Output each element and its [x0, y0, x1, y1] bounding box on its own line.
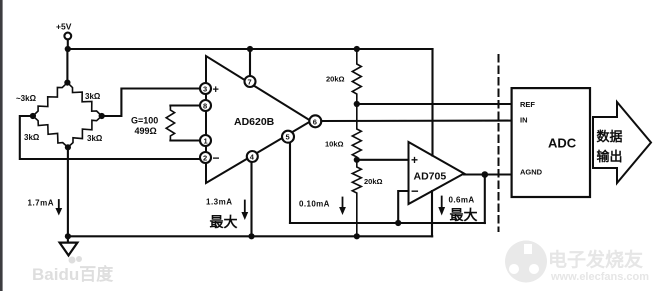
dashed isolation line: [498, 55, 500, 231]
pin 4: [247, 151, 258, 239]
current label 0.10mA: [299, 198, 346, 216]
wire ground rail: [68, 235, 432, 237]
wire bridge bottom to ground: [67, 147, 69, 242]
wire bridge left to pin2 rail: [20, 116, 200, 159]
svg-text:IN: IN: [520, 116, 528, 125]
node feedback tap: [395, 220, 401, 226]
svg-text:AD620B: AD620B: [234, 116, 275, 128]
node ground rail left junction: [65, 233, 71, 239]
svg-text:3kΩ: 3kΩ: [24, 133, 40, 142]
ground: [60, 243, 78, 256]
svg-text:1.7mA: 1.7mA: [28, 199, 55, 208]
watermark baidu: [32, 256, 114, 284]
svg-text:G=100: G=100: [131, 116, 158, 126]
svg-text:电子发烧友: 电子发烧友: [548, 248, 643, 271]
svg-text:10kΩ: 10kΩ: [325, 140, 344, 149]
svg-text:AD705: AD705: [414, 171, 447, 183]
svg-text:0.10mA: 0.10mA: [299, 200, 330, 209]
resistor bridge 3k bottom-right: [68, 116, 102, 147]
wire feedback horizontal to pin5: [290, 222, 485, 224]
resistor 20k bottom: [352, 160, 382, 240]
wire AD705 V- to ground rail: [431, 191, 433, 236]
svg-text:AGND: AGND: [520, 168, 543, 177]
+5V terminal: [56, 22, 72, 40]
op-amp U1 AD620B: [206, 56, 311, 183]
pin 7: [245, 46, 256, 87]
current label 0.6mA MAX: [438, 196, 477, 224]
wire +5V to top rail: [67, 39, 69, 49]
svg-text:20kΩ: 20kΩ: [326, 75, 345, 84]
svg-text:8: 8: [203, 102, 207, 111]
svg-text:输出: 输出: [597, 149, 623, 164]
svg-text:数据: 数据: [597, 129, 623, 144]
svg-text:5: 5: [286, 133, 290, 142]
svg-text:最大: 最大: [450, 207, 478, 223]
svg-text:+: +: [213, 84, 219, 96]
svg-text:Baidu百度: Baidu百度: [32, 264, 114, 284]
resistor bridge 3k bottom-left: [33, 116, 68, 147]
pin 5: [282, 131, 294, 223]
wire pin6 to ADC IN: [321, 120, 513, 123]
svg-text:+: +: [411, 153, 418, 167]
svg-text:−: −: [213, 151, 220, 165]
svg-text:ADC: ADC: [548, 136, 577, 151]
node top rail +5V junction: [65, 46, 71, 52]
watermark elecfans: [505, 241, 649, 284]
node bridge top: [64, 80, 70, 86]
wire AD705 output to ADC AGND: [464, 173, 513, 175]
op-amp U2 AD705: [409, 142, 465, 204]
wire bridge right to pin3: [102, 89, 200, 117]
current label 1.3mA MAX: [206, 198, 248, 231]
pin 8: [200, 100, 211, 111]
border left bar: [0, 0, 3, 291]
resistor bridge ~3k top-left: [33, 83, 68, 116]
svg-text:−: −: [411, 184, 419, 199]
resistor 20k top: [326, 46, 361, 104]
pin 1: [200, 135, 211, 146]
svg-text:www.elecfans.com: www.elecfans.com: [550, 271, 649, 283]
ADC U3: [512, 88, 590, 197]
node bridge left: [30, 113, 36, 119]
wire top rail to bridge top: [66, 49, 68, 83]
svg-text:+5V: +5V: [56, 22, 72, 32]
node AD705 output: [482, 171, 489, 178]
wire top rail: [68, 48, 433, 50]
resistor bridge 3k top-right: [67, 83, 101, 116]
node REF tap: [354, 101, 360, 107]
wire tap to AD705 + input: [357, 159, 409, 161]
svg-text:REF: REF: [520, 100, 535, 109]
svg-text:20kΩ: 20kΩ: [364, 177, 383, 186]
data output arrow: [593, 102, 651, 183]
pin 2: [200, 151, 220, 165]
resistor RG 499 gain: [131, 106, 200, 141]
svg-text:最大: 最大: [210, 214, 238, 230]
node bridge right: [99, 113, 105, 119]
svg-text:1.3mA: 1.3mA: [206, 198, 233, 207]
svg-text:3kΩ: 3kΩ: [87, 134, 103, 143]
svg-text:7: 7: [248, 78, 252, 87]
svg-text:499Ω: 499Ω: [135, 126, 157, 136]
wire AD705 V+ supply: [431, 49, 433, 156]
pin 3: [200, 83, 219, 96]
svg-text:1: 1: [204, 137, 208, 146]
node AD705 + tap: [354, 157, 360, 163]
current label 1.7mA: [28, 199, 63, 216]
wire AD705 inverting input tap: [398, 191, 408, 223]
svg-text:~3kΩ: ~3kΩ: [16, 94, 37, 103]
wire feedback down: [484, 175, 486, 224]
svg-text:6: 6: [313, 117, 317, 126]
resistor 10k: [325, 104, 361, 160]
pin 6: [309, 115, 321, 127]
svg-text:3: 3: [203, 85, 207, 94]
node bridge bottom: [65, 144, 71, 150]
svg-text:3kΩ: 3kΩ: [85, 92, 101, 101]
svg-text:2: 2: [203, 154, 207, 163]
svg-text:0.6mA: 0.6mA: [449, 196, 475, 205]
wire REF tap to ADC REF: [357, 103, 513, 105]
